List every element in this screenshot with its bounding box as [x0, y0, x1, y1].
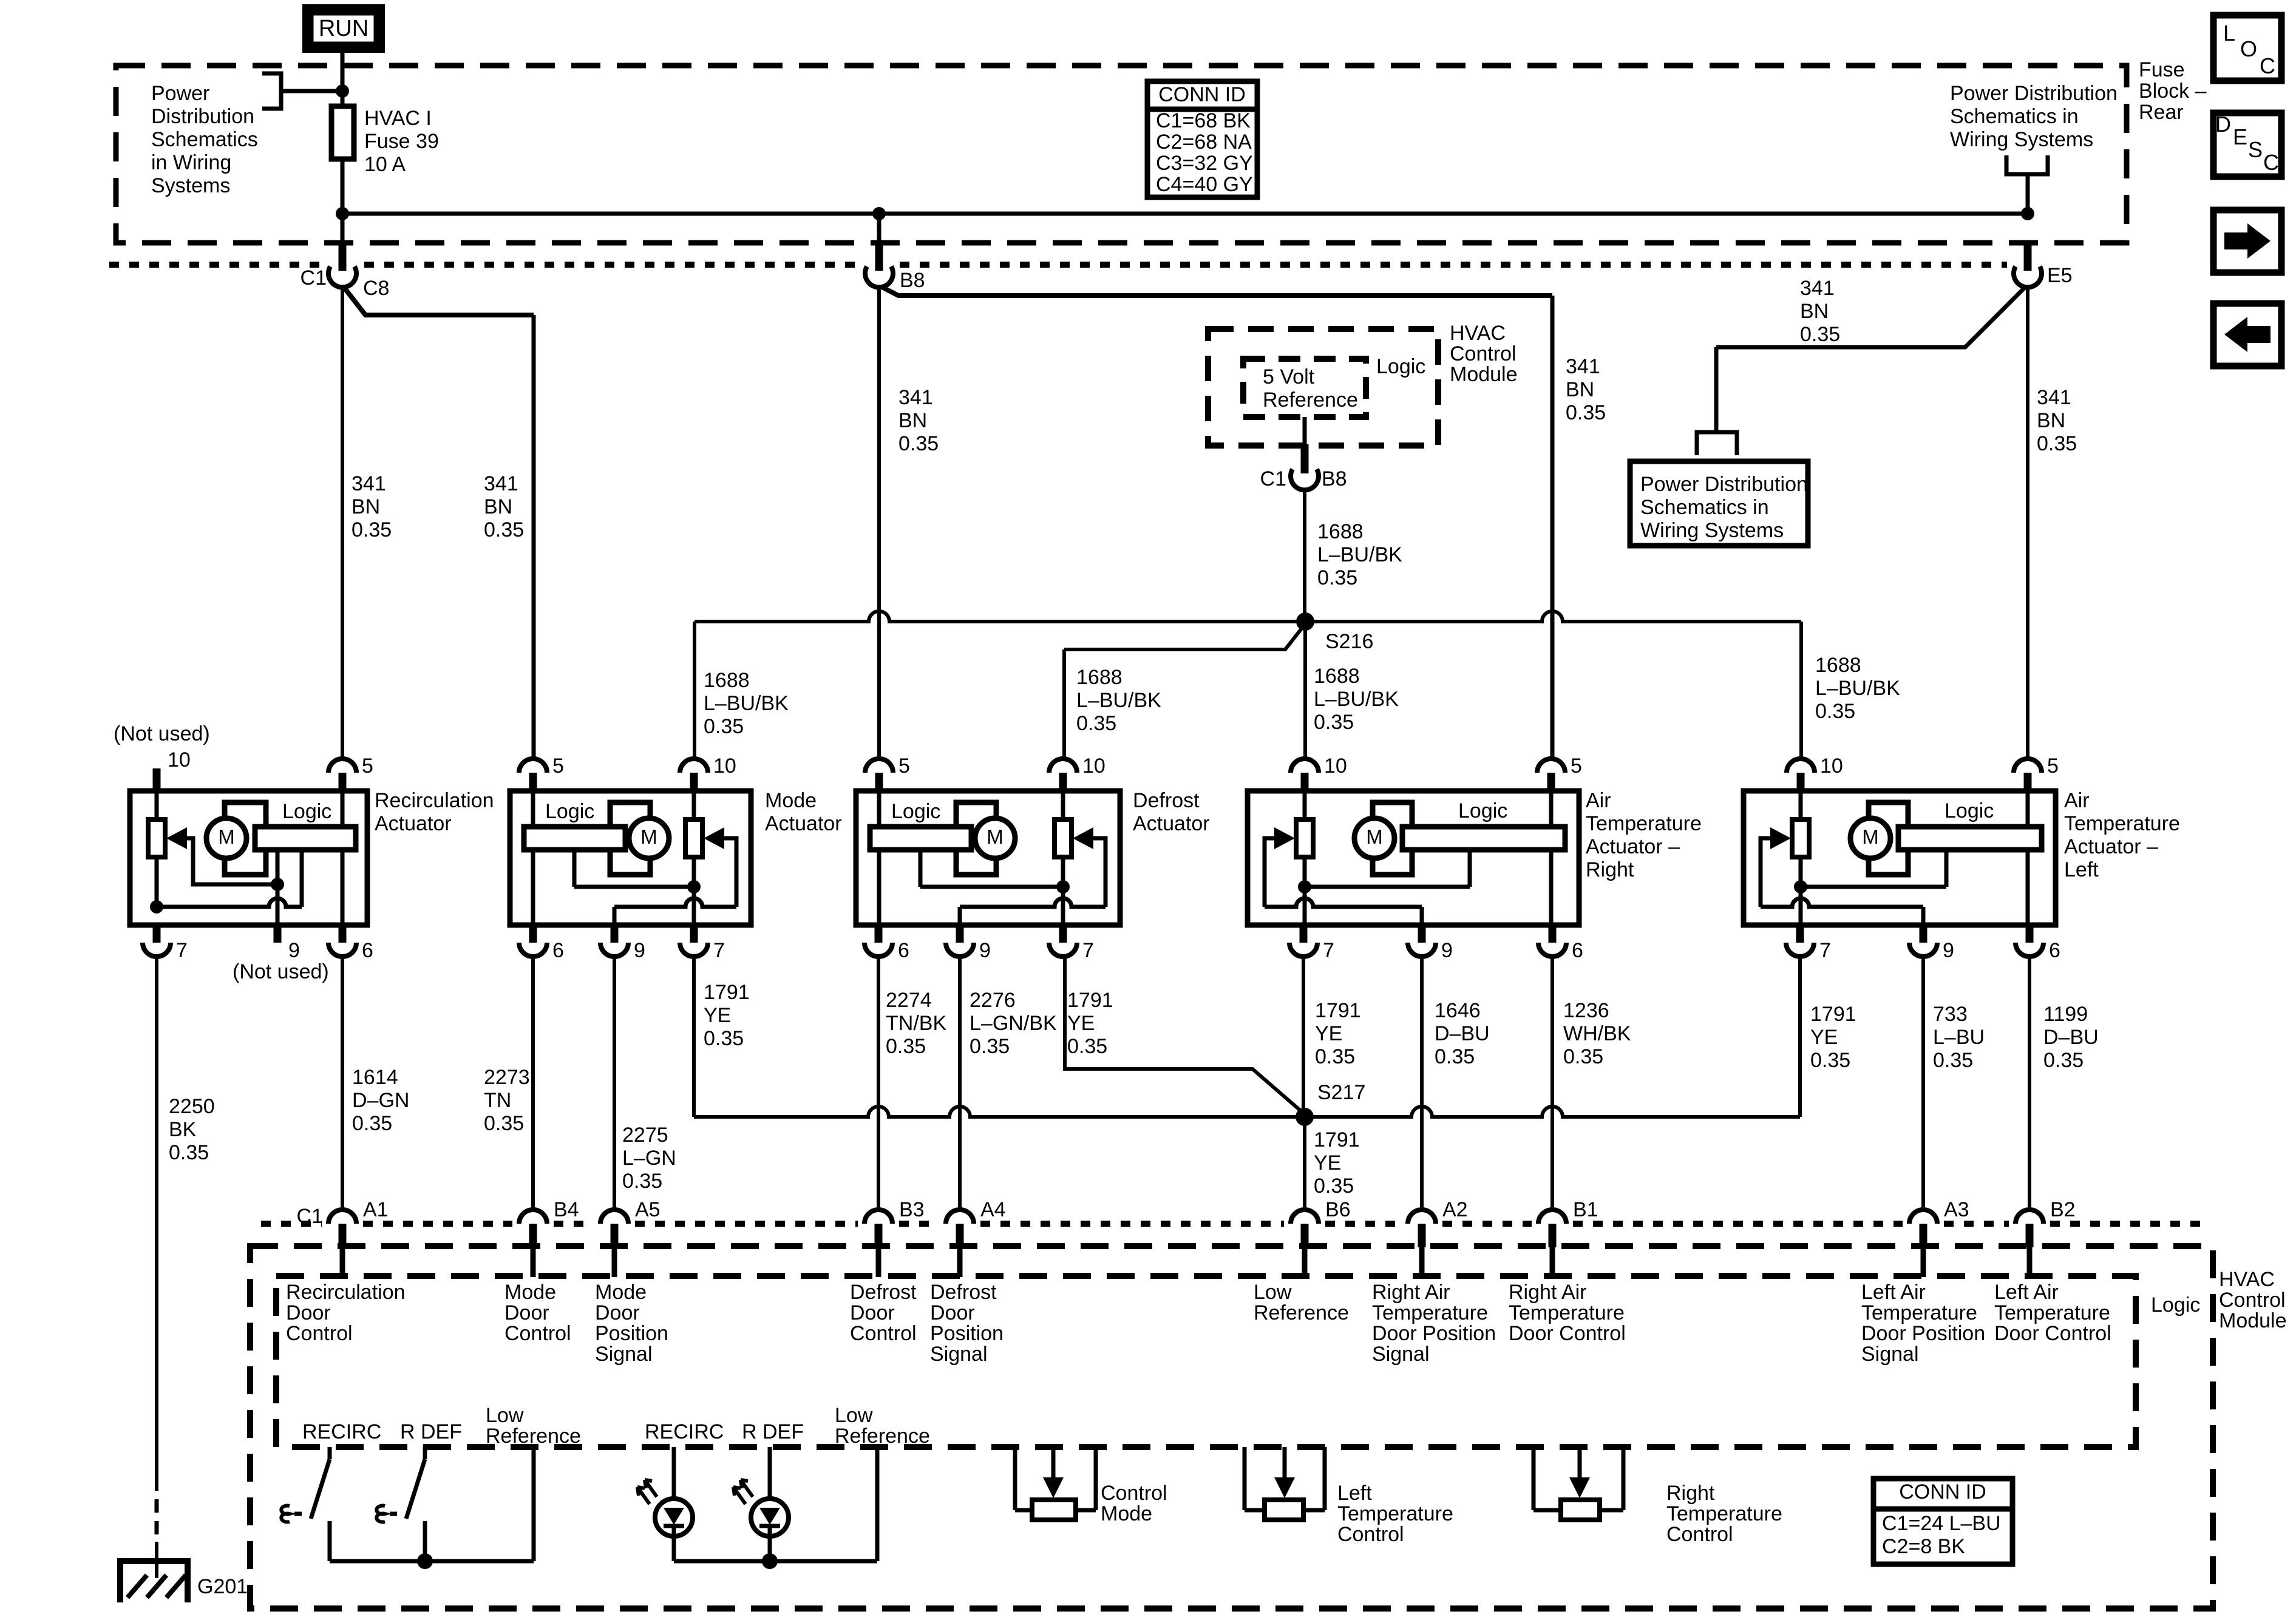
wire 341 BN E5 down to air temp left actuator — [2026, 285, 2029, 759]
pin 7 bottom connector — [1796, 923, 1804, 943]
svg-text:Power Distribution: Power Distribution — [1640, 473, 1808, 496]
svg-text:9: 9 — [1441, 939, 1453, 962]
svg-text:Control: Control — [1450, 342, 1517, 365]
power distribution schematics box — [1630, 461, 1808, 546]
svg-text:BN: BN — [352, 495, 380, 518]
potentiometer Control Mode — [1013, 1447, 1017, 1510]
wire 1614 D-GN recirc pin6 to C1 A1 — [341, 957, 344, 1211]
pin 6 bottom connector — [529, 923, 537, 943]
mode actuator wiper arrowhead — [704, 827, 724, 849]
svg-text:1688: 1688 — [1815, 654, 1861, 677]
wire switch common bus — [330, 1559, 534, 1564]
svg-text:0.35: 0.35 — [1566, 401, 1606, 424]
HVAC control module dashed box bottom — [250, 1246, 2213, 1609]
svg-text:Actuator: Actuator — [765, 812, 842, 835]
pin 7 bottom connector — [153, 923, 161, 943]
svg-text:Actuator: Actuator — [375, 812, 452, 835]
junction dot bus left — [336, 207, 349, 220]
svg-text:Left Air: Left Air — [1994, 1281, 2059, 1304]
svg-text:341: 341 — [1566, 355, 1600, 378]
svg-text:0.35: 0.35 — [484, 518, 524, 541]
svg-text:5 Volt: 5 Volt — [1263, 365, 1315, 388]
CONN ID table bottom — [1873, 1479, 2012, 1564]
wire fuse vertical — [341, 91, 345, 214]
mode actuator potentiometer — [685, 819, 702, 857]
svg-text:Logic: Logic — [1944, 799, 1994, 822]
DESC reference box — [2213, 113, 2281, 177]
svg-text:2274: 2274 — [886, 989, 932, 1012]
junction dot at fuse top — [336, 84, 349, 98]
svg-text:0.35: 0.35 — [704, 1027, 744, 1050]
svg-text:(Not used): (Not used) — [233, 960, 329, 983]
svg-text:WH/BK: WH/BK — [1563, 1022, 1631, 1045]
fuse F39 HVAC I 10A — [331, 106, 354, 159]
svg-text:YE: YE — [1315, 1022, 1342, 1045]
svg-text:L–BU/BK: L–BU/BK — [1314, 688, 1399, 711]
svg-text:Right: Right — [1666, 1482, 1715, 1505]
pin 6 bottom connector — [875, 923, 883, 943]
svg-text:A3: A3 — [1944, 1198, 1969, 1221]
svg-text:Temperature: Temperature — [1586, 812, 1702, 835]
svg-text:Defrost: Defrost — [850, 1281, 917, 1304]
wire 733 L-BU air temp left pin9 to A3 — [1921, 957, 1925, 1211]
svg-text:Control: Control — [2219, 1289, 2286, 1312]
svg-text:BN: BN — [2037, 409, 2065, 432]
svg-text:5: 5 — [552, 754, 564, 778]
pin 6 bottom connector — [339, 923, 347, 943]
recirc logic bar — [255, 827, 356, 850]
svg-text:D–BU: D–BU — [2043, 1026, 2099, 1049]
svg-text:341: 341 — [898, 386, 933, 409]
svg-text:Left: Left — [2064, 858, 2099, 881]
svg-text:BN: BN — [898, 409, 927, 432]
svg-text:0.35: 0.35 — [169, 1141, 209, 1164]
svg-text:Signal: Signal — [595, 1343, 653, 1366]
junction dot led bus — [762, 1553, 778, 1569]
svg-text:Temperature: Temperature — [1509, 1301, 1625, 1324]
connector A2 HVAC module — [1408, 1210, 1436, 1224]
air temp right actuator pin5 internal wire — [1549, 791, 1554, 925]
air temp left actuator wiper wire — [1761, 838, 1771, 907]
pin 9 bottom connector — [611, 923, 619, 943]
pin 10 top connector — [1291, 759, 1319, 773]
svg-text:CONN ID: CONN ID — [1899, 1480, 1986, 1503]
svg-text:Rear: Rear — [2139, 101, 2184, 124]
svg-text:S217: S217 — [1317, 1081, 1365, 1104]
wire 1791 YE defrost pin7 to S217 — [1065, 957, 1303, 1113]
svg-text:Reference: Reference — [1263, 388, 1358, 412]
svg-text:Control: Control — [1101, 1482, 1167, 1505]
svg-text:0.35: 0.35 — [898, 432, 939, 455]
svg-text:L–GN: L–GN — [622, 1147, 676, 1170]
svg-text:10: 10 — [1082, 754, 1106, 778]
svg-text:D–BU: D–BU — [1435, 1022, 1490, 1045]
svg-text:YE: YE — [1314, 1151, 1341, 1175]
svg-text:10: 10 — [1820, 754, 1843, 778]
switch RECIRC — [328, 1447, 332, 1459]
ground G201 — [120, 1561, 188, 1602]
recirc internal dot pot — [150, 900, 163, 914]
svg-text:1199: 1199 — [2043, 1003, 2088, 1026]
wire 1688 to S216 — [1303, 488, 1306, 622]
connector C1 B8 of module — [1301, 444, 1309, 473]
svg-text:Power: Power — [151, 82, 209, 105]
svg-text:L–GN/BK: L–GN/BK — [970, 1012, 1057, 1035]
svg-text:0.35: 0.35 — [1315, 1045, 1355, 1068]
svg-text:L–BU/BK: L–BU/BK — [704, 692, 789, 715]
pin 5 top connector — [1537, 759, 1565, 773]
wire low reference riser switches — [532, 1447, 536, 1561]
defrost actuator box — [856, 791, 1120, 925]
air temp left actuator internal dot — [1794, 880, 1807, 893]
svg-text:Actuator: Actuator — [1133, 812, 1210, 835]
svg-text:D–GN: D–GN — [352, 1089, 409, 1112]
wire S216 bus left to mode actuator pin 10 — [695, 611, 1305, 622]
svg-text:2275: 2275 — [622, 1124, 668, 1147]
wire 1646 D-BU air temp right pin9 to A2 — [1420, 957, 1424, 1211]
svg-text:0.35: 0.35 — [2043, 1049, 2084, 1072]
svg-text:E: E — [2233, 124, 2247, 149]
svg-text:HVAC I: HVAC I — [364, 107, 432, 130]
svg-text:0.35: 0.35 — [352, 1112, 392, 1135]
svg-text:Temperature: Temperature — [1861, 1301, 1977, 1324]
note bracket Power Distribution left — [262, 73, 281, 109]
svg-text:BK: BK — [169, 1118, 197, 1141]
svg-text:BN: BN — [1566, 378, 1594, 401]
note bracket Power Distribution right-top — [2006, 155, 2048, 174]
mode actuator logic bar — [524, 827, 625, 850]
pin 9 bottom connector — [274, 923, 282, 943]
mode actuator wiper wire — [723, 838, 736, 907]
svg-text:0.35: 0.35 — [970, 1035, 1010, 1058]
svg-text:B6: B6 — [1325, 1198, 1351, 1221]
svg-text:9: 9 — [634, 939, 645, 962]
wire S216 branch to defrost pin 10 — [1064, 627, 1303, 649]
svg-text:Logic: Logic — [282, 800, 331, 823]
pin 10 top connector — [1787, 759, 1815, 773]
svg-text:Air: Air — [2064, 789, 2090, 812]
wire B8 branch to air temp right actuator — [881, 286, 1552, 296]
svg-text:Module: Module — [1450, 363, 1518, 386]
svg-text:A2: A2 — [1442, 1198, 1468, 1221]
arrow forward box — [2213, 210, 2281, 273]
air temp right actuator motor — [1373, 802, 1412, 875]
svg-text:S216: S216 — [1325, 630, 1373, 653]
svg-text:5: 5 — [2047, 754, 2059, 778]
svg-text:0.35: 0.35 — [1800, 323, 1840, 346]
svg-text:Temperature: Temperature — [2064, 812, 2180, 835]
svg-text:M: M — [1862, 825, 1879, 848]
air temp left actuator dot to logic bar — [1801, 885, 1946, 889]
svg-text:341: 341 — [2037, 386, 2071, 409]
mode actuator box — [510, 791, 751, 925]
svg-text:7: 7 — [1819, 939, 1831, 962]
svg-text:E5: E5 — [2047, 264, 2073, 287]
wire 2273 TN mode pin6 to B4 — [531, 957, 535, 1211]
svg-text:M: M — [1366, 825, 1383, 848]
svg-text:RUN: RUN — [319, 16, 369, 41]
junction dot bus B8 — [872, 207, 886, 220]
svg-text:B8: B8 — [1322, 467, 1347, 490]
fuse block dashed box — [116, 66, 2127, 243]
svg-text:Fuse: Fuse — [2139, 58, 2185, 81]
defrost actuator internal dot — [1056, 880, 1070, 893]
svg-text:Signal: Signal — [1372, 1343, 1430, 1366]
svg-text:9: 9 — [288, 939, 300, 962]
svg-text:C3=32 GY: C3=32 GY — [1156, 152, 1253, 175]
potentiometer Left Temperature Control — [1243, 1447, 1247, 1510]
svg-text:A1: A1 — [363, 1198, 389, 1221]
connector E5 at fuse block — [2024, 243, 2032, 271]
svg-text:Schematics in: Schematics in — [1950, 105, 2079, 128]
svg-text:0.35: 0.35 — [1314, 711, 1354, 734]
svg-text:YE: YE — [1067, 1012, 1095, 1035]
svg-text:YE: YE — [704, 1004, 731, 1027]
svg-text:Door: Door — [504, 1301, 549, 1324]
svg-text:Temperature: Temperature — [1372, 1301, 1488, 1324]
svg-text:1791: 1791 — [704, 981, 750, 1004]
svg-text:Wiring Systems: Wiring Systems — [1640, 519, 1784, 542]
air temp left actuator logic bar — [1898, 827, 2042, 850]
defrost actuator dot to logic bar — [920, 885, 1063, 889]
splice S217 — [1296, 1108, 1314, 1126]
pin 7 bottom connector — [1059, 923, 1067, 943]
svg-text:RECIRC: RECIRC — [645, 1420, 724, 1443]
svg-text:Position: Position — [595, 1322, 668, 1345]
svg-text:1688: 1688 — [1317, 520, 1364, 543]
svg-text:B1: B1 — [1573, 1198, 1598, 1221]
svg-text:CONN ID: CONN ID — [1158, 83, 1246, 106]
svg-text:Mode: Mode — [765, 789, 817, 812]
svg-text:6: 6 — [362, 939, 373, 962]
svg-text:5: 5 — [362, 754, 373, 778]
defrost actuator potentiometer — [1055, 819, 1072, 857]
air temp left actuator wiper arrowhead — [1770, 827, 1791, 849]
wire 341 BN C1 down to recirculation actuator — [341, 285, 344, 759]
svg-text:Logic: Logic — [1376, 355, 1425, 378]
connector B8 at fuse block — [875, 243, 883, 271]
svg-text:1236: 1236 — [1563, 999, 1609, 1022]
CONN ID table top — [1147, 81, 1257, 197]
svg-text:YE: YE — [1810, 1026, 1838, 1049]
svg-text:0.35: 0.35 — [352, 518, 392, 541]
pin 7 bottom connector — [690, 923, 698, 943]
junction dot switch bus — [417, 1553, 433, 1569]
svg-text:Right Air: Right Air — [1509, 1281, 1587, 1304]
wire bracket to main vertical — [281, 89, 343, 93]
air temp right actuator box — [1248, 791, 1579, 925]
svg-text:Logic: Logic — [2151, 1293, 2200, 1317]
svg-text:1646: 1646 — [1435, 999, 1481, 1022]
defrost actuator logic bar — [870, 827, 971, 850]
mode actuator pot wire — [692, 791, 696, 925]
svg-text:C2=8 BK: C2=8 BK — [1882, 1535, 1965, 1558]
svg-text:C: C — [2260, 53, 2275, 78]
HVAC control module dashed box top — [1208, 329, 1438, 446]
svg-text:Logic: Logic — [1458, 799, 1507, 822]
svg-text:0.35: 0.35 — [484, 1112, 524, 1135]
svg-text:in Wiring: in Wiring — [151, 151, 231, 174]
air temp right actuator logic bar — [1402, 827, 1565, 850]
svg-text:Schematics in: Schematics in — [1640, 496, 1769, 519]
defrost actuator pin5 internal wire — [877, 791, 881, 925]
connector A5 HVAC module — [600, 1210, 628, 1224]
svg-text:A4: A4 — [980, 1198, 1006, 1221]
wire 2274 TN-BK defrost pin6 to B3 — [877, 957, 880, 1211]
svg-text:2273: 2273 — [484, 1066, 530, 1089]
connector line dotted module — [261, 1221, 322, 1227]
svg-text:Air: Air — [1586, 789, 1611, 812]
svg-text:Door Position: Door Position — [1372, 1322, 1496, 1345]
pin 6 bottom connector — [2026, 923, 2034, 943]
svg-text:HVAC: HVAC — [1450, 322, 1506, 345]
wire 1791 YE S217 to B6 — [1303, 1117, 1306, 1211]
defrost actuator wiper wire — [1092, 838, 1106, 907]
svg-text:Door Control: Door Control — [1509, 1322, 1626, 1345]
air temp right actuator potentiometer — [1296, 819, 1313, 857]
svg-text:M: M — [218, 825, 235, 848]
pin 10 top connector — [153, 768, 161, 793]
mode actuator internal dot — [687, 880, 701, 893]
svg-text:0.35: 0.35 — [1563, 1045, 1603, 1068]
connector A3 HVAC module — [1909, 1210, 1937, 1224]
svg-text:BN: BN — [484, 495, 512, 518]
svg-text:Reference: Reference — [486, 1425, 581, 1448]
connector B4 HVAC module — [519, 1210, 547, 1224]
svg-text:Control: Control — [504, 1322, 571, 1345]
pin 7 bottom connector — [1300, 923, 1308, 943]
svg-text:Low: Low — [835, 1404, 873, 1427]
wire S216 down to air temp right pin 10 — [1303, 622, 1307, 759]
pin 9 bottom connector — [1418, 923, 1426, 943]
5 volt reference dashed box — [1243, 359, 1366, 417]
junction dot bus E5 — [2021, 207, 2034, 220]
svg-text:1791: 1791 — [1314, 1128, 1360, 1151]
wire bus to B8 connector — [877, 214, 881, 245]
svg-text:0.35: 0.35 — [1815, 700, 1855, 723]
mode actuator motor — [610, 802, 650, 875]
recirculation actuator box — [130, 791, 367, 925]
svg-text:Door: Door — [286, 1301, 331, 1324]
wire E5 riser to bracket — [2026, 175, 2030, 214]
svg-text:Module: Module — [2219, 1309, 2287, 1332]
svg-text:Reference: Reference — [835, 1425, 930, 1448]
svg-text:0.35: 0.35 — [1933, 1049, 1973, 1072]
svg-text:A5: A5 — [635, 1198, 661, 1221]
mode actuator dot to logic bar — [574, 885, 694, 889]
svg-text:Control: Control — [1666, 1523, 1733, 1546]
pin 10 top connector — [680, 759, 708, 773]
potentiometer Right Temperature Control — [1532, 1447, 1536, 1510]
air temp left actuator motor — [1869, 802, 1908, 875]
svg-text:M: M — [987, 825, 1004, 848]
svg-text:1791: 1791 — [1067, 989, 1113, 1012]
svg-text:B8: B8 — [900, 269, 925, 292]
svg-text:R DEF: R DEF — [742, 1420, 804, 1443]
svg-text:Defrost: Defrost — [1133, 789, 1200, 812]
svg-text:341: 341 — [484, 472, 518, 495]
svg-text:7: 7 — [713, 939, 725, 962]
wire low reference riser leds — [875, 1447, 880, 1561]
LOC reference box — [2213, 15, 2281, 81]
wire C8 branch to mode actuator — [344, 288, 534, 315]
svg-text:TN/BK: TN/BK — [886, 1012, 946, 1035]
svg-text:B3: B3 — [899, 1198, 925, 1221]
svg-text:HVAC: HVAC — [2219, 1268, 2275, 1291]
svg-text:2276: 2276 — [970, 989, 1016, 1012]
svg-text:Defrost: Defrost — [930, 1281, 997, 1304]
ignition switch RUN box — [307, 8, 381, 49]
recirc internal wiper wire — [186, 838, 277, 884]
svg-text:B2: B2 — [2050, 1198, 2076, 1221]
air temp left actuator pin5 internal wire — [2026, 791, 2030, 925]
wire led common bus — [674, 1559, 877, 1564]
svg-text:5: 5 — [898, 754, 910, 778]
wire 341 BN B8 down to defrost actuator — [877, 285, 881, 759]
svg-text:Systems: Systems — [151, 174, 230, 197]
connector line dotted top — [109, 262, 323, 268]
connector B6 HVAC module — [1291, 1210, 1319, 1224]
air temp left actuator potentiometer — [1792, 819, 1809, 857]
svg-text:Reference: Reference — [1254, 1301, 1349, 1324]
svg-text:Door Position: Door Position — [1861, 1322, 1985, 1345]
svg-text:Power Distribution: Power Distribution — [1950, 82, 2118, 105]
svg-text:Block –: Block – — [2139, 80, 2207, 103]
wire S216 bus right to air temp left pin 10 — [1305, 611, 1801, 622]
svg-text:0.35: 0.35 — [2037, 432, 2077, 455]
svg-text:5: 5 — [1571, 754, 1582, 778]
switch R DEF — [423, 1447, 427, 1459]
recirc wiper arrowhead — [166, 827, 187, 849]
svg-text:Actuator –: Actuator – — [1586, 835, 1680, 858]
svg-text:Control: Control — [850, 1322, 917, 1345]
svg-text:0.35: 0.35 — [1435, 1045, 1475, 1068]
svg-text:7: 7 — [1082, 939, 1094, 962]
air temp right actuator wiper wire — [1265, 838, 1275, 907]
svg-text:C1=24 L–BU: C1=24 L–BU — [1882, 1512, 2001, 1535]
svg-text:7: 7 — [1323, 939, 1334, 962]
svg-text:6: 6 — [2049, 939, 2060, 962]
wire S217 bus left — [694, 1107, 1305, 1117]
pin 5 top connector — [865, 759, 893, 773]
svg-text:Control: Control — [286, 1322, 353, 1345]
air temp right actuator internal dot — [1298, 880, 1311, 893]
svg-text:Mode: Mode — [1101, 1502, 1152, 1525]
svg-text:Recirculation: Recirculation — [286, 1281, 406, 1304]
svg-text:7: 7 — [176, 939, 188, 962]
svg-text:Actuator –: Actuator – — [2064, 835, 2158, 858]
recirc internal pot wire — [155, 791, 159, 907]
svg-text:C: C — [2263, 150, 2279, 175]
svg-text:Left: Left — [1337, 1482, 1372, 1505]
wire 2276 L-GN-BK defrost pin9 to A4 — [958, 957, 962, 1211]
recirc internal dot pin9 — [271, 878, 284, 891]
svg-text:C1: C1 — [301, 266, 327, 290]
svg-text:0.35: 0.35 — [1067, 1035, 1107, 1058]
svg-text:0.35: 0.35 — [886, 1035, 926, 1058]
svg-text:R DEF: R DEF — [400, 1420, 462, 1443]
svg-text:Right Air: Right Air — [1372, 1281, 1450, 1304]
svg-text:Distribution: Distribution — [151, 105, 254, 128]
svg-text:0.35: 0.35 — [1076, 712, 1116, 735]
svg-text:Door: Door — [930, 1301, 975, 1324]
pin 5 top connector — [519, 759, 547, 773]
svg-text:Fuse 39: Fuse 39 — [364, 130, 439, 153]
pin 5 top connector — [328, 759, 356, 773]
wire RUN to fuse block — [341, 53, 345, 91]
svg-text:RECIRC: RECIRC — [302, 1420, 381, 1443]
mode actuator pin5 internal wire — [531, 791, 535, 925]
